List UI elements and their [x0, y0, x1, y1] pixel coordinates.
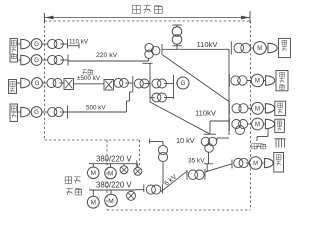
svg-text:10 kV: 10 kV [176, 136, 195, 145]
svg-text:G: G [34, 41, 39, 48]
svg-text:G: G [34, 57, 39, 64]
svg-text:35 kV: 35 kV [188, 158, 205, 165]
svg-text:G: G [35, 80, 40, 87]
svg-text:380/220 V: 380/220 V [96, 154, 132, 163]
svg-text:±500 kV: ±500 kV [77, 75, 101, 82]
svg-text:220 kV: 220 kV [96, 52, 118, 59]
svg-text:M: M [108, 198, 114, 205]
svg-text:M: M [108, 170, 113, 177]
svg-text:110kV: 110kV [197, 40, 219, 49]
svg-text:G: G [34, 109, 39, 116]
svg-text:M: M [255, 122, 260, 128]
svg-text:110kV: 110kV [195, 109, 217, 118]
svg-text:110 kV: 110 kV [69, 39, 89, 46]
svg-text:M: M [91, 200, 96, 207]
svg-text:M: M [253, 161, 258, 167]
svg-text:M: M [255, 79, 260, 85]
svg-text:500 kV: 500 kV [86, 105, 106, 112]
svg-text:M: M [257, 46, 262, 52]
svg-text:M: M [255, 106, 260, 112]
svg-text:G: G [181, 80, 186, 87]
svg-text:M: M [91, 170, 96, 177]
svg-text:380/220 V: 380/220 V [96, 181, 132, 190]
